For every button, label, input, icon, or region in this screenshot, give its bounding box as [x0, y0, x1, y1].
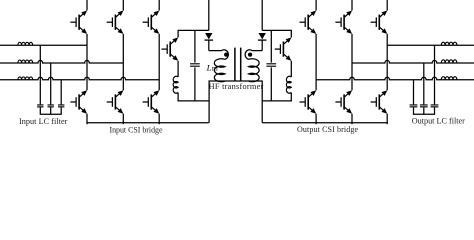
transistor S5 input bridge bottom leg2	[107, 90, 124, 113]
transistor S7 left cell switch	[162, 37, 179, 60]
transistor S13 output bridge bottom leg2	[335, 90, 352, 113]
node primary polarity dot	[224, 52, 228, 56]
wire leg2 emitter to rail	[122, 114, 124, 125]
wire leg1 emitter to rail	[86, 114, 88, 125]
transistor S6 input bridge bottom leg3	[143, 90, 160, 113]
wire input bridge bottom rail	[86, 122, 208, 124]
transistor S3 input bridge top leg3	[143, 11, 160, 34]
wire leg3 emitter to rail	[158, 114, 160, 125]
inductor L5 output filter	[441, 60, 457, 63]
transistor S9 output bridge top leg1	[300, 11, 317, 34]
inductor L6 output filter	[441, 77, 457, 80]
transformer core line 1	[234, 48, 236, 81]
wire D1 anode line from top	[208, 0, 210, 30]
node secondary polarity dot	[248, 52, 252, 56]
wire output leg2 midsection	[351, 34, 353, 90]
wire leg1 top rail stub	[86, 0, 88, 11]
transistor S2 input bridge top leg2	[107, 11, 124, 34]
wire right cell bottom link	[262, 100, 292, 102]
wire S7 emitter to coil	[177, 61, 179, 77]
capacitor C5 right cell capacitor	[266, 64, 276, 66]
wire output leg3 emitter to rail	[386, 114, 388, 125]
wire C3 bottom stub	[60, 107, 62, 114]
label Input LC filter	[19, 117, 68, 126]
wire output filter cap C8 tap	[434, 45, 436, 104]
wire left coil to bottom link	[177, 93, 179, 101]
wire C1 bottom stub	[39, 107, 41, 114]
wire output leg2 emitter to rail	[351, 114, 353, 125]
svg-text:Output CSI bridge: Output CSI bridge	[297, 125, 358, 134]
wire C4 bottom lead	[194, 67, 196, 101]
wire right cell top link	[262, 29, 292, 31]
wire output leg3 midsection	[386, 34, 388, 90]
wire C4 top lead	[194, 30, 196, 62]
inductor L7 left cell coil	[173, 76, 178, 93]
capacitor C2 input filter	[48, 105, 54, 107]
transformer TR primary winding	[209, 50, 229, 82]
wire left cell bottom link	[178, 100, 210, 102]
capacitor C1 input filter	[37, 105, 43, 107]
svg-text:Output LC filter: Output LC filter	[412, 116, 465, 125]
wire output phase C (y=79.8)	[316, 77, 474, 80]
wire output leg1 midsection	[315, 34, 317, 90]
capacitor C6 output filter	[410, 105, 418, 107]
label HF transformer	[209, 82, 264, 91]
svg-text:Input CSI bridge: Input CSI bridge	[109, 126, 163, 135]
wire C8 bottom stub	[434, 107, 436, 114]
transistor S11 output bridge top leg3	[371, 11, 388, 34]
wire input filter cap common join	[40, 113, 62, 115]
capacitor C8 output filter	[431, 105, 439, 107]
wire input phase C (y=79.8)	[0, 77, 159, 80]
wire output phase A (y=45.25)	[387, 44, 474, 46]
wire output filter cap C6 tap	[413, 80, 415, 105]
wire leg2 midsection	[122, 34, 124, 90]
wire D1 cathode to transformer	[208, 40, 210, 51]
wire D2 cathode to transformer	[261, 40, 263, 51]
wire input filter cap C2 tap	[50, 63, 52, 104]
wire leg3 midsection	[158, 34, 160, 90]
inductor L3 input filter phase C	[18, 77, 33, 80]
wire output filter cap C7 tap	[423, 63, 425, 104]
transistor S10 output bridge top leg2	[335, 11, 352, 34]
HF transformer label box	[209, 81, 262, 123]
wire output leg1 top stub	[315, 0, 317, 11]
wire C5 top lead	[270, 30, 272, 62]
wire C7 bottom stub	[423, 107, 425, 114]
wire D2 anode line from top	[261, 0, 263, 30]
label Output LC filter	[412, 116, 465, 125]
wire leg2 top rail stub	[122, 0, 124, 11]
transformer core line 2	[240, 48, 242, 81]
wire S8 emitter to coil	[290, 61, 292, 77]
wire output leg2 top stub	[351, 0, 353, 11]
svg-text:L: L	[206, 63, 212, 73]
wire left cell top link	[178, 29, 209, 31]
wire input filter cap C3 tap	[60, 80, 62, 105]
inductor L1 input filter phase A	[18, 42, 33, 45]
wire C6 bottom stub	[413, 107, 415, 114]
wire C5 bottom lead	[270, 67, 272, 101]
capacitor C7 output filter	[420, 105, 428, 107]
svg-text:m: m	[212, 64, 218, 73]
wire output leg3 top stub	[386, 0, 388, 11]
diode D1	[205, 33, 214, 40]
wire C2 bottom stub	[50, 107, 52, 114]
capacitor C4 left cell capacitor	[190, 64, 200, 66]
inductor L8 right cell coil	[286, 76, 291, 93]
wire output leg1 emitter to rail	[315, 114, 317, 125]
wire input phase A (y=45.25)	[0, 44, 87, 46]
inductor L4 output filter	[441, 42, 457, 45]
transformer TR secondary winding	[245, 50, 262, 82]
transistor S14 output bridge bottom leg3	[371, 90, 388, 113]
wire input phase B (y=62.95)	[0, 60, 123, 63]
transistor S4 input bridge bottom leg1	[70, 90, 87, 113]
label Lm	[206, 63, 218, 73]
wire output filter cap common join	[413, 113, 435, 115]
wire output bridge bottom rail	[262, 122, 388, 124]
svg-text:HF transformer: HF transformer	[209, 82, 264, 91]
wire leg3 top rail stub	[158, 0, 160, 11]
inductor L2 input filter phase B	[18, 60, 33, 63]
wire right coil to bottom link	[290, 93, 292, 101]
transistor S12 output bridge bottom leg1	[300, 90, 317, 113]
wire S8 collector lead	[290, 30, 292, 37]
capacitor C3 input filter	[58, 105, 64, 107]
transistor S1 input bridge top leg1	[70, 11, 87, 34]
transistor S8 right cell switch	[275, 37, 292, 60]
label Output CSI bridge	[297, 125, 358, 134]
label Input CSI bridge	[109, 126, 163, 135]
wire output phase B (y=62.95)	[352, 60, 474, 63]
svg-text:Input LC filter: Input LC filter	[19, 117, 68, 126]
diode D2	[258, 33, 267, 40]
wire leg1 midsection	[86, 34, 88, 90]
wire input filter cap C1 tap	[39, 45, 41, 104]
wire S7 collector lead	[177, 30, 179, 37]
